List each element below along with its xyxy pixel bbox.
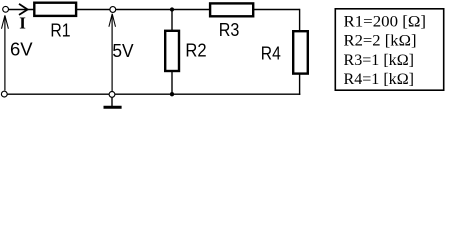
- current arrow chevron I: [19, 4, 28, 15]
- resistor R2: [165, 31, 179, 71]
- voltage arrow 6V head: [2, 15, 9, 28]
- svg-text:R3=1 [kΩ]: R3=1 [kΩ]: [344, 52, 415, 69]
- legend box: [335, 9, 443, 90]
- svg-text:R1: R1: [50, 21, 70, 41]
- svg-text:R4=1 [kΩ]: R4=1 [kΩ]: [344, 71, 415, 88]
- svg-text:R2=2 [kΩ]: R2=2 [kΩ]: [344, 33, 417, 50]
- wire right vertical (top corner down to R4): [299, 9, 301, 31]
- ground bar: [104, 106, 122, 109]
- svg-text:I: I: [19, 14, 26, 33]
- resistor R4: [293, 31, 308, 73]
- svg-text:R1=200 [Ω]: R1=200 [Ω]: [344, 13, 427, 30]
- terminal top-left: [3, 6, 9, 12]
- wire bottom horizontal: [4, 93, 300, 95]
- wire R4 bottom to bottom rail: [299, 74, 301, 95]
- svg-text:R3: R3: [219, 20, 240, 40]
- terminal bottom-left: [1, 91, 7, 97]
- node circle bottom (ground node): [109, 92, 115, 98]
- junction dot top of R2: [170, 7, 174, 11]
- resistor R1: [34, 3, 76, 16]
- ground stem: [111, 97, 113, 106]
- node circle top (5V node): [110, 7, 116, 13]
- svg-text:5V: 5V: [112, 41, 133, 61]
- svg-text:6V: 6V: [10, 40, 33, 60]
- svg-text:R2: R2: [185, 41, 206, 61]
- wire R2 branch top: [171, 10, 173, 32]
- voltage arrow 6V shaft: [4, 16, 6, 91]
- voltage arrow 5V shaft: [111, 14, 113, 91]
- junction dot bottom of R2: [170, 92, 174, 96]
- voltage arrow 5V head: [109, 14, 116, 27]
- wire R2 branch bottom: [171, 72, 173, 95]
- svg-text:R4: R4: [261, 44, 281, 64]
- resistor R3: [210, 3, 253, 16]
- wire top horizontal: [9, 9, 300, 11]
